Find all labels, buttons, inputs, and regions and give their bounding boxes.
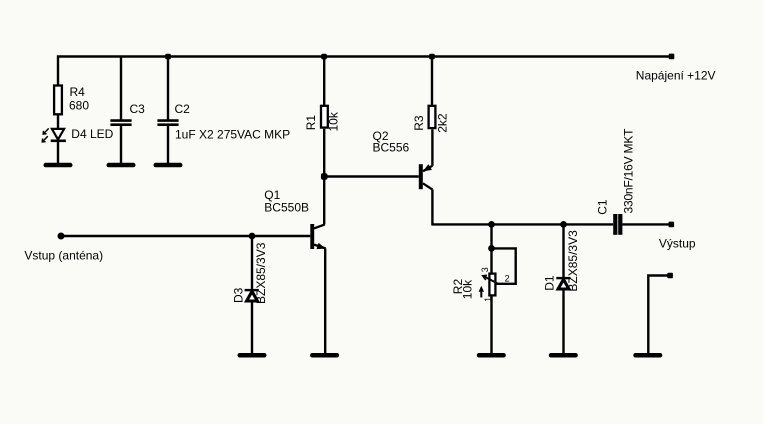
svg-text:680: 680 [69, 99, 89, 113]
svg-text:D1: D1 [542, 275, 556, 291]
ground C2 [154, 163, 183, 168]
ground output [633, 353, 662, 358]
junction R2 wiper branch [488, 245, 495, 252]
svg-text:1uF X2 275VAC MKP: 1uF X2 275VAC MKP [175, 127, 290, 141]
zener D3 [245, 289, 259, 291]
resistor R1 [321, 106, 328, 128]
svg-text:Výstup: Výstup [659, 237, 696, 251]
ground D1 [549, 353, 578, 358]
wire output ground [648, 276, 667, 354]
capacitor C1 [613, 214, 617, 235]
svg-text:Napájení +12V: Napájení +12V [636, 69, 716, 83]
transistor Q2 BC556 [419, 164, 423, 189]
wire C1 to output [622, 223, 669, 225]
wire C2 to ground [167, 126, 169, 163]
svg-text:BC550B: BC550B [264, 200, 309, 214]
wire R3 to Q2 emitter [431, 129, 433, 166]
svg-text:C3: C3 [130, 102, 146, 116]
wire R4 to D4 [57, 115, 59, 129]
wire input to Q1 base [61, 235, 310, 237]
resistor R4 [54, 86, 62, 115]
junction node base Q2 [321, 173, 328, 180]
wire R1 top [323, 57, 325, 106]
wire Q2 collector down [431, 189, 433, 225]
svg-text:3: 3 [480, 267, 490, 272]
zener D1 [556, 277, 570, 279]
ground R4/D4 [44, 163, 73, 168]
svg-text:R3: R3 [412, 115, 426, 131]
junction D3 / input [249, 233, 256, 240]
wire Q1 emitter to ground [324, 248, 326, 353]
junction R1 / rail [321, 54, 327, 60]
svg-text:R1: R1 [304, 115, 318, 131]
svg-text:C1: C1 [596, 199, 610, 215]
svg-text:BC556: BC556 [373, 140, 410, 154]
junction R2 / output row [488, 221, 495, 228]
output ground terminal [667, 273, 673, 279]
wire D3 top [251, 236, 253, 289]
svg-text:BZX85/3V3: BZX85/3V3 [254, 242, 268, 304]
svg-text:10k: 10k [461, 279, 475, 299]
svg-text:C2: C2 [175, 102, 191, 116]
capacitor C2 [157, 119, 178, 122]
wire Q1 collector [323, 177, 325, 225]
svg-text:10k: 10k [326, 111, 340, 131]
input terminal [58, 233, 65, 240]
wire R1 to node [323, 129, 325, 177]
wire +12V rail with drop to R4 [58, 57, 669, 86]
trimmer R2 [489, 274, 495, 296]
svg-text:BZX85/3V3: BZX85/3V3 [566, 230, 580, 292]
junction D1 / output row [560, 221, 567, 228]
wire C3 to ground [120, 126, 122, 163]
ground C3 [107, 163, 136, 168]
LED D4 [52, 129, 64, 140]
wire R3 top [431, 57, 433, 106]
wire D1 to ground [562, 290, 564, 353]
capacitor C3 [110, 119, 131, 122]
svg-text:330nF/16V MKT: 330nF/16V MKT [621, 128, 635, 214]
ground R2 [477, 353, 506, 358]
wire D1 top [562, 224, 564, 277]
junction C2 / rail [165, 54, 171, 60]
ground Q1 [310, 353, 339, 358]
resistor R3 [429, 106, 436, 128]
wire C3 top [120, 58, 122, 120]
wire R2 to ground [490, 295, 492, 353]
svg-text:D4 LED: D4 LED [71, 127, 113, 141]
svg-text:2k2: 2k2 [436, 113, 450, 133]
junction R3 / rail [429, 54, 435, 60]
wire D4 to ground [57, 141, 59, 163]
svg-text:Vstup (anténa): Vstup (anténa) [24, 249, 103, 263]
wire wiper loop [492, 248, 516, 283]
power rail terminal [669, 54, 675, 60]
wire C2 top [167, 57, 169, 120]
svg-text:2: 2 [505, 274, 510, 284]
svg-text:D3: D3 [231, 287, 245, 303]
wire D3 to ground [251, 302, 253, 353]
ground D3 [238, 353, 267, 358]
wire output row [432, 223, 613, 225]
output terminal [669, 222, 675, 228]
wire Q2 base [324, 175, 419, 177]
transistor Q1 BC550B [310, 224, 314, 249]
wire R2 top [490, 224, 492, 272]
svg-text:R4: R4 [70, 85, 86, 99]
